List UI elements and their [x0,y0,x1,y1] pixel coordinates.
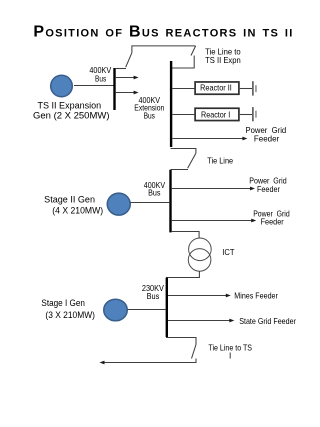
wire: tie line top run [132,46,196,53]
switch: tie line left blade [126,53,132,67]
wire: bus to Reactor II [172,88,194,90]
svg-text:TS II Expansion: TS II Expansion [38,101,102,111]
arrow: mines feeder [168,295,227,297]
bus B3: 400KV main bus [169,170,171,233]
switch: tie line right blade [191,46,196,56]
arrow: expansion bus feeder 2 [116,92,135,94]
wire: G3 to 230KV bus [128,309,166,311]
wire: tie line right riser to extension bus [171,56,195,69]
svg-text:Feeder: Feeder [261,217,284,227]
svg-text:Bus: Bus [147,291,160,301]
svg-text:(4 X 210MW): (4 X 210MW) [52,206,103,216]
svg-text:Reactor I: Reactor I [201,110,230,120]
arrow: power grid feeder B [172,220,253,222]
wire: tie line between 400KV buses - top stub [171,149,196,154]
svg-text:Bus: Bus [95,73,106,83]
svg-text:(3 X 210MW): (3 X 210MW) [45,310,95,320]
svg-text:Stage I Gen: Stage I Gen [41,298,85,308]
bus B4: 230KV bus [166,278,168,337]
wire: G2 to main bus [131,202,170,204]
svg-text:State Grid Feeder: State Grid Feeder [239,316,296,326]
arrow: expansion bus feeder 1 [116,77,135,79]
wire: bus to Reactor I [172,114,194,116]
svg-text:Feeder: Feeder [257,184,280,194]
arrow: power grid feeder A [172,188,251,190]
reactor box: Reactor I [195,108,239,120]
switch: bottom tie blade [192,345,197,359]
wire: middle tie bottom stub [171,169,189,171]
bus B2: 400KV extension bus [170,61,172,147]
svg-text:ICT: ICT [222,247,234,257]
generator G2: Stage II Gen circle [107,193,130,215]
svg-text:I: I [229,351,231,361]
arrow: power grid feeder from extension bus [172,138,243,140]
cap symbol: Reactor II neutral bars [252,81,253,95]
wire: Reactor II to neutral cap [240,88,252,90]
wire: ICT to 230KV bus [166,271,199,277]
wire: main bus to ICT [172,232,199,239]
svg-text:Gen (2 X 250MW): Gen (2 X 250MW) [33,110,110,120]
wire: Reactor I to neutral cap [240,114,252,116]
generator G1: TS II Expansion Gen circle [51,75,73,97]
svg-text:Mines Feeder: Mines Feeder [234,291,278,301]
generator G3: Stage I Gen circle [104,299,128,321]
wire: 230KV bus to tie line TS I [166,338,196,345]
reactor box: Reactor II [195,82,239,94]
svg-text:Reactor II: Reactor II [200,82,232,92]
switch: middle tie blade [188,153,196,168]
wire: tie line to TS II Expn - left stub [116,68,126,70]
transformer ICT: secondary winding [188,249,211,272]
cap symbol: Reactor I neutral bars [252,107,253,121]
svg-text:Feeder: Feeder [254,134,280,144]
wire: G1 to expansion bus [74,85,114,87]
svg-text:TS II Expn: TS II Expn [205,55,241,65]
svg-text:Stage II Gen: Stage II Gen [44,194,95,204]
svg-text:Bus: Bus [148,188,160,198]
transformer ICT: primary winding [189,238,212,261]
svg-text:Tie Line: Tie Line [207,155,233,165]
arrow: state grid feeder [168,320,230,322]
svg-text:Position of Bus reactors in ts: Position of Bus reactors in ts ii [33,24,293,41]
bus B1: 400KV expansion bus [113,68,115,110]
arrow: tie line to TS I (long left arrow) [104,359,197,363]
svg-text:Bus: Bus [144,111,155,121]
